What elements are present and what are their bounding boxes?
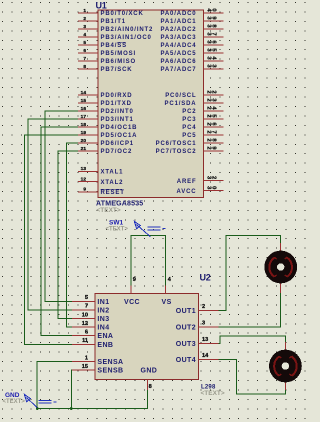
svg-text:16: 16 — [81, 106, 87, 112]
svg-text:SENSB: SENSB — [97, 368, 123, 375]
svg-text:8: 8 — [149, 384, 152, 390]
svg-text:PA4/ADC4: PA4/ADC4 — [160, 43, 196, 49]
svg-text:PB0/T0/XCK: PB0/T0/XCK — [101, 11, 144, 17]
svg-text:3: 3 — [202, 321, 205, 327]
svg-text:PC3: PC3 — [182, 117, 196, 123]
svg-text:7: 7 — [83, 56, 86, 62]
svg-text:14: 14 — [202, 353, 209, 359]
svg-text:10: 10 — [82, 312, 88, 318]
svg-text:PD4/OC1B: PD4/OC1B — [101, 125, 138, 131]
svg-text:13: 13 — [202, 337, 208, 343]
svg-text:17: 17 — [81, 114, 87, 120]
svg-text:6: 6 — [83, 48, 86, 54]
svg-text:PD2/INT0: PD2/INT0 — [101, 109, 134, 115]
svg-text:7: 7 — [85, 304, 88, 310]
svg-text:PA5/ADC5: PA5/ADC5 — [160, 51, 196, 57]
svg-text:PA3/ADC3: PA3/ADC3 — [160, 35, 196, 41]
svg-text:GND: GND — [5, 392, 20, 399]
svg-text:1: 1 — [83, 8, 86, 14]
svg-text:IN4: IN4 — [97, 325, 109, 332]
svg-text:PA0/ADC0: PA0/ADC0 — [160, 11, 196, 17]
svg-text:PD6/ICP1: PD6/ICP1 — [101, 141, 134, 147]
svg-text:PC0/SCL: PC0/SCL — [165, 93, 196, 99]
svg-text:PA1/ADC1: PA1/ADC1 — [160, 19, 196, 25]
svg-text:2: 2 — [83, 16, 86, 22]
svg-text:VCC: VCC — [124, 299, 140, 306]
svg-text:IN3: IN3 — [97, 316, 109, 323]
svg-text:0: 0 — [210, 186, 216, 189]
svg-text:8: 8 — [83, 64, 86, 70]
svg-text:PB4/SS: PB4/SS — [101, 43, 127, 49]
svg-text:1: 1 — [85, 355, 88, 361]
svg-text:PD1/TXD: PD1/TXD — [101, 101, 132, 107]
svg-text:SW1: SW1 — [109, 220, 123, 227]
svg-text:PB3/AIN1/OC0: PB3/AIN1/OC0 — [101, 35, 152, 41]
svg-text:11: 11 — [82, 338, 88, 344]
svg-text:6: 6 — [85, 330, 88, 336]
svg-text:9: 9 — [133, 277, 136, 283]
svg-text:14: 14 — [81, 90, 87, 96]
svg-text:0: 0 — [211, 8, 217, 11]
svg-text:PA7/ADC7: PA7/ADC7 — [160, 67, 196, 73]
svg-text:PD7/OC2: PD7/OC2 — [101, 149, 133, 155]
svg-text:12: 12 — [81, 177, 87, 183]
svg-text:PB2/AIN0/INT2: PB2/AIN0/INT2 — [101, 27, 154, 33]
svg-text:12: 12 — [82, 321, 88, 327]
svg-text:PA2/ADC2: PA2/ADC2 — [160, 27, 196, 33]
svg-text:PD3/INT1: PD3/INT1 — [101, 117, 134, 123]
svg-text:PB6/MISO: PB6/MISO — [101, 59, 136, 65]
svg-text:7: 7 — [211, 130, 217, 133]
svg-text:9: 9 — [83, 187, 86, 193]
svg-text:PC4: PC4 — [182, 125, 196, 131]
svg-text:3: 3 — [83, 24, 86, 30]
svg-text:PC6/TOSC1: PC6/TOSC1 — [156, 141, 197, 147]
svg-text:4: 4 — [83, 32, 86, 38]
svg-text:OUT1: OUT1 — [176, 308, 196, 315]
svg-text:7: 7 — [211, 32, 217, 35]
svg-text:IN1: IN1 — [97, 299, 109, 306]
svg-text:PB1/T1: PB1/T1 — [101, 19, 126, 25]
svg-text:U1: U1 — [96, 0, 107, 10]
svg-text:15: 15 — [81, 98, 87, 104]
svg-text:2: 2 — [211, 90, 217, 93]
svg-text:OUT4: OUT4 — [176, 357, 196, 364]
svg-text:13: 13 — [81, 166, 87, 172]
svg-text:SENSA: SENSA — [97, 359, 123, 366]
svg-text:AVCC: AVCC — [177, 189, 197, 195]
svg-text:PC1/SDA: PC1/SDA — [165, 101, 197, 107]
svg-text:5: 5 — [85, 295, 88, 301]
svg-text:AREF: AREF — [177, 179, 197, 185]
svg-text:5: 5 — [83, 40, 86, 46]
svg-text:PC5: PC5 — [182, 133, 196, 139]
svg-text:2: 2 — [211, 176, 217, 179]
svg-text:2: 2 — [202, 304, 205, 310]
svg-text:U2: U2 — [200, 273, 211, 283]
svg-text:<TEXT>: <TEXT> — [106, 227, 129, 233]
svg-text:IN2: IN2 — [97, 307, 109, 314]
svg-text:PB7/SCK: PB7/SCK — [101, 67, 133, 73]
svg-text:ENA: ENA — [97, 333, 113, 340]
svg-text:PD5/OC1A: PD5/OC1A — [101, 133, 138, 139]
svg-text:OUT3: OUT3 — [176, 341, 196, 348]
svg-text:<TEXT>: <TEXT> — [97, 207, 121, 214]
svg-text:PC7/TOSC2: PC7/TOSC2 — [156, 149, 197, 155]
svg-text:GND: GND — [141, 368, 158, 375]
svg-text:PA6/ADC6: PA6/ADC6 — [160, 59, 196, 65]
svg-text:XTAL2: XTAL2 — [101, 180, 124, 186]
svg-text:VS: VS — [162, 299, 172, 306]
svg-text:<TEXT>: <TEXT> — [201, 390, 225, 397]
svg-text:18: 18 — [81, 122, 87, 128]
svg-text:19: 19 — [81, 130, 87, 136]
svg-text:OUT2: OUT2 — [176, 325, 196, 332]
svg-text:RESET: RESET — [101, 190, 125, 196]
svg-text:15: 15 — [82, 364, 88, 370]
svg-text:PC2: PC2 — [182, 109, 196, 115]
svg-text:<TEXT>: <TEXT> — [3, 399, 26, 405]
svg-text:XTAL1: XTAL1 — [101, 170, 124, 176]
svg-text:PB5/MOSI: PB5/MOSI — [101, 51, 136, 57]
svg-text:21: 21 — [81, 146, 87, 152]
svg-text:20: 20 — [81, 138, 87, 144]
svg-text:ENB: ENB — [97, 342, 113, 349]
svg-text:PD0/RXD: PD0/RXD — [101, 93, 133, 99]
